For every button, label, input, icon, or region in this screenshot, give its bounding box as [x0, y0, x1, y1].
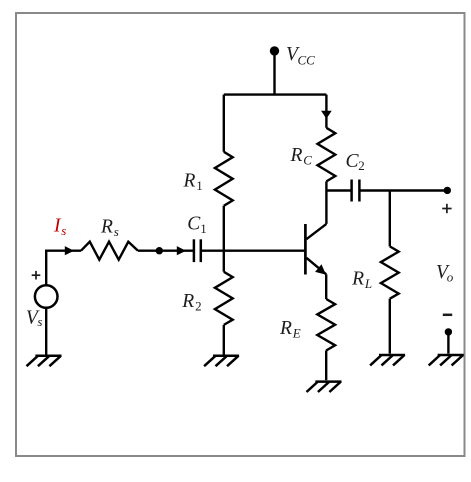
wire: RE to ground — [325, 351, 327, 381]
ground for Vs — [27, 356, 62, 366]
svg-text:E: E — [292, 326, 301, 341]
svg-text:1: 1 — [196, 178, 203, 193]
source Vs circle — [35, 285, 58, 308]
wire: emitter to RE — [325, 274, 327, 299]
wire: output to RL — [389, 191, 391, 247]
ground for RL — [370, 355, 405, 365]
wire: C2 tap — [326, 189, 351, 191]
transistor Q1 — [305, 224, 326, 275]
plus sign at Vs — [32, 271, 41, 280]
resistor Rs — [81, 242, 138, 260]
wire: R2 to ground — [223, 325, 225, 355]
wire: Rs to node — [138, 249, 159, 251]
wire: Vs bottom to ground — [45, 308, 47, 355]
arrow into RC — [321, 111, 332, 119]
Vo minus node dot — [445, 328, 452, 335]
Vcc node dot — [270, 46, 279, 55]
capacitor C2 — [352, 180, 360, 202]
wire: rail to R1 — [223, 95, 225, 152]
wire: top rail — [224, 93, 327, 95]
wire: Vcc to rail — [273, 51, 275, 95]
wire: RL to ground — [389, 299, 391, 354]
current arrow near C1 — [177, 246, 186, 255]
svg-text:C: C — [187, 214, 201, 235]
resistor RC — [318, 128, 336, 182]
svg-text:R: R — [183, 170, 196, 191]
svg-text:s: s — [37, 314, 42, 329]
svg-text:2: 2 — [195, 299, 202, 314]
wire: node to C1 — [159, 249, 194, 251]
capacitor C1 — [194, 239, 201, 262]
svg-text:R: R — [351, 269, 364, 290]
ground for R2 — [204, 356, 239, 366]
resistor R1 — [215, 152, 233, 206]
svg-text:R: R — [279, 318, 292, 339]
node dot after Rs — [156, 247, 163, 254]
wire: rail to RC — [325, 95, 327, 128]
wire: RC to collector — [325, 181, 327, 224]
svg-text:CC: CC — [298, 53, 316, 68]
wire: C1 to base — [201, 249, 304, 251]
current arrow near Vs — [65, 246, 74, 255]
resistor R2 — [215, 272, 233, 325]
svg-text:R: R — [290, 145, 303, 166]
svg-text:o: o — [447, 270, 454, 285]
wire: Vs to corner to Rs — [46, 251, 81, 286]
svg-text:1: 1 — [200, 221, 207, 236]
svg-text:L: L — [364, 276, 372, 291]
svg-text:C: C — [303, 153, 312, 168]
svg-text:s: s — [61, 223, 66, 238]
svg-text:R: R — [181, 291, 194, 312]
svg-text:s: s — [114, 224, 119, 239]
plus sign at output — [442, 204, 451, 213]
resistor RL — [381, 246, 399, 298]
svg-text:2: 2 — [358, 158, 365, 173]
svg-text:R: R — [100, 217, 113, 238]
wire: Vo minus to ground — [447, 332, 449, 354]
wire: R1 to R2 through base tap — [223, 206, 225, 272]
output node dot — [444, 187, 451, 194]
resistor RE — [317, 299, 335, 351]
ground for RE — [307, 382, 342, 392]
minus sign at output — [443, 314, 452, 317]
emitter arrow — [315, 264, 326, 274]
wire: C2 to output node — [359, 189, 447, 191]
ground for Vo — [429, 355, 464, 365]
